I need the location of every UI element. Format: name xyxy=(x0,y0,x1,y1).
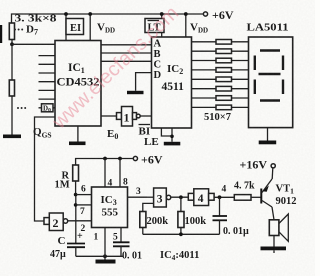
gate U4 "4" input square xyxy=(188,193,194,200)
stub pin 4 xyxy=(104,159,106,188)
gate U2 box xyxy=(49,213,63,231)
+6V top terminal xyxy=(203,12,207,16)
ground left column xyxy=(3,135,21,139)
feedback bottom wire xyxy=(143,233,220,235)
resistor 4.7k xyxy=(234,195,251,201)
QGS wire xyxy=(35,117,56,221)
+6V middle rail xyxy=(76,159,134,166)
gate U1 output square xyxy=(133,113,137,120)
wire B IC1-IC2 xyxy=(101,52,152,54)
resistor 3.3k x8 xyxy=(9,23,14,40)
gate U3 box xyxy=(154,188,167,207)
speaker xyxy=(269,214,288,241)
gate U2 "2" input square xyxy=(44,218,49,225)
+6V top rail wire xyxy=(12,14,204,23)
EI stub wire xyxy=(65,14,67,41)
wire resistor2 to ground xyxy=(11,96,13,135)
stub pin 8 xyxy=(119,159,121,188)
ground IC2 xyxy=(164,142,181,146)
wire E0 to gate1 xyxy=(101,115,117,117)
ellipsis top xyxy=(14,29,23,31)
wire gate4 to 4.7k xyxy=(214,196,234,198)
ground D input xyxy=(127,91,144,94)
node line 555 left xyxy=(75,195,77,243)
IC2 bottom stubs to ground xyxy=(161,128,172,136)
resistor R 1M xyxy=(73,165,79,181)
transistor VT1 9012 xyxy=(260,179,274,220)
gate U1 output bubble xyxy=(136,114,140,118)
wire gate3 to gate4 xyxy=(171,196,189,198)
junction pin4 rail xyxy=(103,157,107,161)
pin 3 wire xyxy=(128,196,148,198)
ground display xyxy=(259,141,277,145)
gate U1 "1" input square xyxy=(117,113,122,120)
LA5011 display box xyxy=(249,37,293,128)
pin 7 wire xyxy=(76,204,92,206)
wire A IC1-IC2 xyxy=(101,44,152,46)
IC1 ground stem xyxy=(77,126,79,142)
gate U4 output square xyxy=(209,193,215,200)
scan artifact left edge xyxy=(0,25,2,43)
+16V terminal xyxy=(271,164,275,168)
wire gate2 output to pin 2 xyxy=(68,220,92,222)
IC1 input stubs D6..D0 xyxy=(39,56,56,108)
wire C IC1-IC2 xyxy=(101,60,152,62)
VDD stub IC2 xyxy=(185,14,187,37)
node D7 junction xyxy=(10,42,14,46)
capacitor C 47u xyxy=(67,244,85,248)
wire node down to resistor2 xyxy=(11,44,13,80)
gate U1 box xyxy=(122,107,133,127)
resistor 200k xyxy=(140,212,146,228)
pin 6 wire xyxy=(76,194,92,196)
gate U2 output bubble xyxy=(63,219,67,223)
ellipsis near D0 xyxy=(17,107,26,109)
segment wires and resistors 510x7 xyxy=(192,40,249,110)
wire speaker to ground xyxy=(273,236,275,247)
wire gate1 to BI xyxy=(140,115,151,117)
VDD stub IC1 xyxy=(89,14,91,41)
wire D7 to IC1 xyxy=(12,43,55,45)
seven-segment digit 8 xyxy=(255,51,283,101)
IC1 CD4532 box xyxy=(55,41,101,127)
wire 200k to gate3 input 2 xyxy=(143,203,154,211)
ground bottom rail xyxy=(96,260,116,264)
pin 1 stub xyxy=(104,228,106,257)
bottom rail xyxy=(76,255,123,257)
gate U3 output bubble xyxy=(166,195,170,199)
wire 4.7k to base xyxy=(251,196,261,198)
+6V middle terminal xyxy=(133,156,137,160)
ground speaker xyxy=(261,247,287,251)
resistor 100k xyxy=(180,197,182,211)
LT pin label box xyxy=(145,19,164,33)
display common wire xyxy=(267,128,269,141)
capacitor 0.01u xyxy=(219,197,221,216)
resistor lower-left xyxy=(9,80,14,96)
D0 label box xyxy=(42,104,54,112)
IC2 4511 box xyxy=(152,37,192,128)
ground IC1 xyxy=(69,142,86,146)
junction pin8 rail xyxy=(118,157,122,161)
capacitor 0.01 xyxy=(113,242,130,246)
wire 555 pin3 into gate3 input 1 xyxy=(147,196,154,198)
LT stub wire xyxy=(161,14,163,37)
wire resistor to node D7 xyxy=(11,40,13,45)
wire D to ground xyxy=(136,73,152,91)
IC3 555 box xyxy=(92,187,128,228)
EI pin label box xyxy=(66,19,84,35)
gate U4 box xyxy=(194,189,209,206)
pin 5 stub xyxy=(120,228,122,243)
